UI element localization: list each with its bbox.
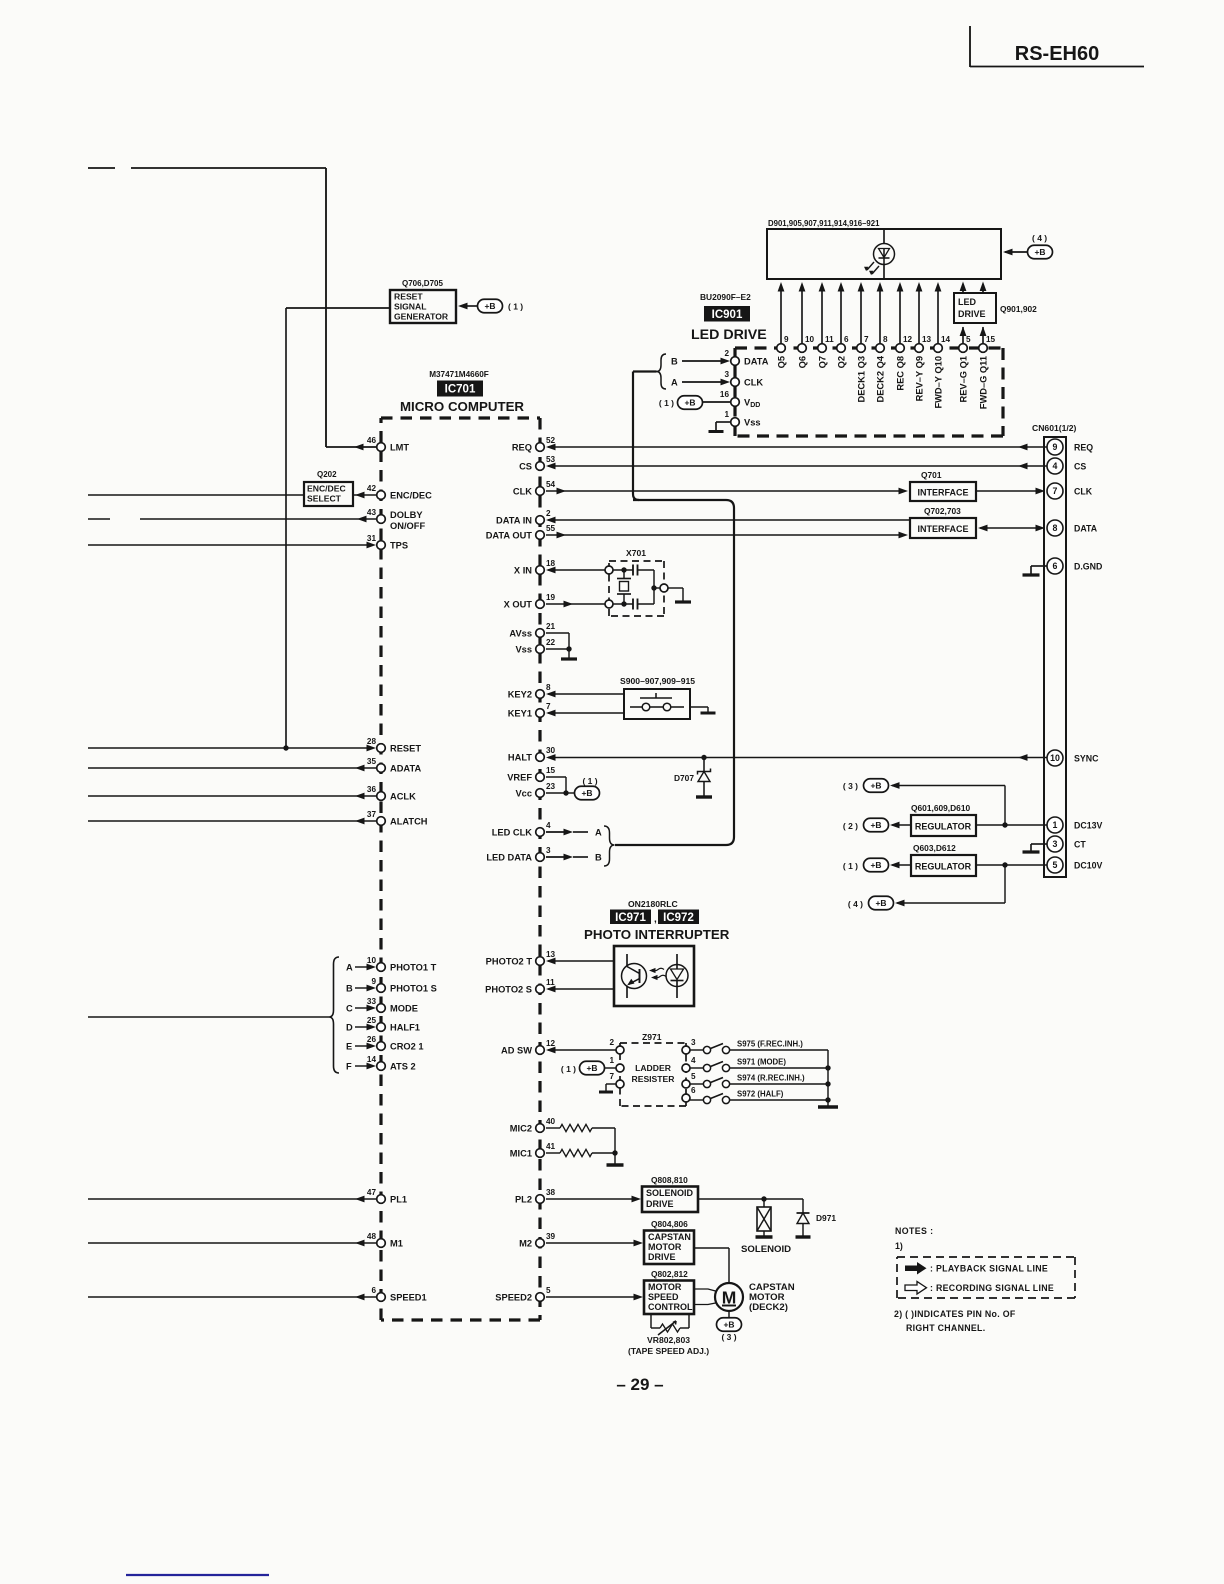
IC701 pin 43 DOLBY xyxy=(377,515,386,524)
svg-text:B: B xyxy=(595,853,602,863)
IC701 pin 41 MIC1 xyxy=(536,1149,545,1158)
IC701 pin 5 SPEED2 xyxy=(536,1293,545,1302)
wire reset generator to RESET pin xyxy=(286,307,390,309)
svg-text:CONTROL: CONTROL xyxy=(648,1302,693,1312)
IC701 pin 40 MIC2 xyxy=(536,1124,545,1133)
svg-text:7: 7 xyxy=(864,335,869,344)
wire DATA IN xyxy=(548,519,910,521)
svg-text:MIC2: MIC2 xyxy=(510,1124,532,1134)
svg-text:SYNC: SYNC xyxy=(1074,754,1099,764)
svg-text:35: 35 xyxy=(367,757,377,766)
svg-text:CLK: CLK xyxy=(744,378,763,388)
svg-text:8: 8 xyxy=(1053,523,1058,533)
svg-text:1: 1 xyxy=(724,410,729,419)
svg-text:ON2180RLC: ON2180RLC xyxy=(628,899,678,909)
svg-text:VDD: VDD xyxy=(744,398,760,410)
svg-text:DOLBY: DOLBY xyxy=(390,510,423,520)
wire MIC1 with resistor xyxy=(546,1152,560,1154)
svg-text:DRIVE: DRIVE xyxy=(958,309,986,319)
brace group A-F inputs xyxy=(329,957,339,1073)
svg-text:( 3 ): ( 3 ) xyxy=(721,1332,736,1342)
IC901 output pin 5 REV-G Q1 xyxy=(962,327,964,344)
svg-text:PHOTO1 T: PHOTO1 T xyxy=(390,963,437,973)
svg-text:16: 16 xyxy=(720,390,730,399)
IC701 pin 12 AD SW xyxy=(536,1046,545,1055)
svg-text:MODE: MODE xyxy=(390,1004,418,1014)
svg-text:SELECT: SELECT xyxy=(307,494,342,504)
IC901 output pin 14 FWD–Y Q10 xyxy=(937,291,939,344)
svg-text:+B: +B xyxy=(484,301,495,311)
ground D.GND xyxy=(1031,565,1047,567)
svg-text:CRO2 1: CRO2 1 xyxy=(390,1042,424,1052)
IC701 pin 18 X IN xyxy=(536,566,545,575)
svg-text:IC972: IC972 xyxy=(663,912,694,924)
svg-text:9: 9 xyxy=(784,335,789,344)
bus wire A/B from LED CLK / LED DATA to IC901 xyxy=(632,372,634,495)
svg-text:HALF1: HALF1 xyxy=(390,1023,420,1033)
CN601 pin 5 DC10V xyxy=(1047,857,1063,873)
svg-text:Q202: Q202 xyxy=(317,470,337,479)
svg-text:( 3 ): ( 3 ) xyxy=(843,781,858,791)
wire AD SW xyxy=(548,1049,616,1051)
IC701 pin 33 MODE xyxy=(377,1004,386,1013)
IC701 pin 47 PL1 xyxy=(377,1195,386,1204)
svg-text:Q808,810: Q808,810 xyxy=(651,1175,688,1185)
wire X IN xyxy=(548,569,605,571)
svg-text:DATA IN: DATA IN xyxy=(496,516,532,526)
wire MIC2 with resistor xyxy=(546,1127,560,1129)
switch S972 xyxy=(690,1099,703,1101)
svg-text:1: 1 xyxy=(1053,820,1058,830)
svg-text:M: M xyxy=(722,1288,737,1308)
power +B (3) to capstan motor xyxy=(728,1311,730,1318)
svg-text:9: 9 xyxy=(371,977,376,986)
wire CS xyxy=(548,465,1047,467)
svg-text:RESET: RESET xyxy=(390,744,421,754)
svg-text:HALT: HALT xyxy=(508,753,532,763)
svg-text:13: 13 xyxy=(922,335,932,344)
svg-text:PL1: PL1 xyxy=(390,1195,407,1205)
svg-text:F: F xyxy=(346,1062,352,1072)
IC701 pin 52 REQ xyxy=(536,443,545,452)
svg-text:REQ: REQ xyxy=(1074,443,1093,453)
IC701 pin 10 PHOTO1 T xyxy=(377,963,386,972)
svg-text:5: 5 xyxy=(966,335,971,344)
svg-text:MOTOR: MOTOR xyxy=(648,1282,682,1292)
svg-text:6: 6 xyxy=(844,335,849,344)
svg-text:2) ( )INDICATES PIN No. OF: 2) ( )INDICATES PIN No. OF xyxy=(894,1309,1016,1319)
svg-text:6: 6 xyxy=(371,1286,376,1295)
svg-text:Q804,806: Q804,806 xyxy=(651,1219,688,1229)
svg-text:CAPSTAN: CAPSTAN xyxy=(648,1232,691,1242)
svg-text:Vss: Vss xyxy=(744,418,761,428)
svg-text:11: 11 xyxy=(825,335,834,344)
ground CT xyxy=(1031,843,1047,845)
IC901 output pin 6 Q2 xyxy=(840,291,842,344)
IC701 pin 26 CRO2 1 xyxy=(377,1042,386,1051)
svg-text:+B: +B xyxy=(581,788,592,798)
svg-text:28: 28 xyxy=(367,737,377,746)
bottom blue mark xyxy=(126,1574,269,1576)
svg-text:REV–G Q1: REV–G Q1 xyxy=(959,356,969,403)
IC701 pin 9 PHOTO1 S xyxy=(377,984,386,993)
svg-text:M37471M4660F: M37471M4660F xyxy=(429,370,489,379)
IC901 output pin 10 Q6 xyxy=(801,291,803,344)
svg-text:12: 12 xyxy=(546,1039,556,1048)
svg-text:8: 8 xyxy=(546,683,551,692)
svg-text:Z971: Z971 xyxy=(642,1032,662,1042)
svg-text:30: 30 xyxy=(546,746,556,755)
IC901 pin 3 CLK xyxy=(731,378,740,387)
wire M2 to capstan motor drive xyxy=(546,1242,635,1244)
power +B (1) to reset generator xyxy=(478,299,503,313)
svg-text:LED: LED xyxy=(958,297,977,307)
IC701 pin 39 M2 xyxy=(536,1239,545,1248)
svg-text:D.GND: D.GND xyxy=(1074,562,1102,572)
wire X OUT xyxy=(546,603,605,605)
ground AVss Vss xyxy=(546,632,569,634)
svg-text:ATS 2: ATS 2 xyxy=(390,1062,416,1072)
svg-text:5: 5 xyxy=(1053,860,1058,870)
IC701 pin 11 PHOTO2 S xyxy=(536,985,545,994)
svg-text:NOTES :: NOTES : xyxy=(895,1226,933,1236)
svg-text:( 2 ): ( 2 ) xyxy=(843,821,858,831)
svg-text:7: 7 xyxy=(1053,486,1058,496)
svg-text:S972 (HALF): S972 (HALF) xyxy=(737,1090,784,1099)
wire ADATA xyxy=(88,767,376,769)
svg-text:(TAPE SPEED ADJ.): (TAPE SPEED ADJ.) xyxy=(628,1346,709,1356)
svg-text:6: 6 xyxy=(691,1086,696,1095)
wire crystal common xyxy=(653,570,655,604)
svg-text:48: 48 xyxy=(367,1232,377,1241)
switch common to ground xyxy=(827,1050,829,1106)
Z971 pin 4 xyxy=(682,1064,690,1072)
svg-text:55: 55 xyxy=(546,524,556,533)
svg-text:SOLENOID: SOLENOID xyxy=(646,1188,694,1198)
micro computer IC701 box xyxy=(381,416,540,419)
svg-text:SPEED1: SPEED1 xyxy=(390,1293,427,1303)
svg-text:ACLK: ACLK xyxy=(390,792,416,802)
svg-text:S974 (R.REC.INH.): S974 (R.REC.INH.) xyxy=(737,1074,805,1083)
svg-text:1: 1 xyxy=(609,1056,614,1065)
IC701 pin 35 ADATA xyxy=(377,764,386,773)
ground Z971 pin 7 xyxy=(606,1083,616,1085)
svg-text:Q6: Q6 xyxy=(798,356,808,368)
IC701 pin 19 X OUT xyxy=(536,600,545,609)
svg-text:6: 6 xyxy=(1053,561,1058,571)
IC701 pin 3 LED DATA xyxy=(536,853,545,862)
svg-text:52: 52 xyxy=(546,436,556,445)
brace for A/B bus at IC901 xyxy=(657,354,667,389)
svg-text:7: 7 xyxy=(546,702,551,711)
IC901 pin 1 Vss xyxy=(731,418,740,427)
svg-text:Vss: Vss xyxy=(515,645,532,655)
svg-text:Q802,812: Q802,812 xyxy=(651,1269,688,1279)
IC701 pin 53 CS xyxy=(536,462,545,471)
wire ENC/DEC xyxy=(88,494,304,496)
svg-text:+B: +B xyxy=(586,1063,597,1073)
CN601 pin 7 CLK xyxy=(1047,483,1063,499)
svg-text:E: E xyxy=(346,1042,352,1052)
svg-text:DRIVE: DRIVE xyxy=(646,1199,674,1209)
svg-text:Q7: Q7 xyxy=(818,356,828,368)
IC901 output pin 11 Q7 xyxy=(821,291,823,344)
CN601 pin 9 REQ xyxy=(1047,439,1063,455)
wire LED CLK to node A xyxy=(546,831,566,833)
IC701 pin 54 CLK xyxy=(536,487,545,496)
svg-text:D707: D707 xyxy=(674,773,694,783)
svg-text:22: 22 xyxy=(546,638,556,647)
svg-text:31: 31 xyxy=(367,534,377,543)
svg-text:2: 2 xyxy=(546,509,551,518)
svg-text:: RECORDING SIGNAL LINE: : RECORDING SIGNAL LINE xyxy=(930,1283,1054,1293)
svg-text:( 4 ): ( 4 ) xyxy=(1032,233,1047,243)
wire ALATCH xyxy=(88,820,376,822)
solenoid xyxy=(763,1199,765,1207)
IC701 pin 22 Vss xyxy=(536,645,545,654)
IC701 pin 13 PHOTO2 T xyxy=(536,957,545,966)
svg-text:( 1 ): ( 1 ) xyxy=(659,398,674,408)
svg-text:33: 33 xyxy=(367,997,377,1006)
Z971 pin 7 xyxy=(616,1080,624,1088)
svg-text:DATA: DATA xyxy=(744,357,769,367)
wire solenoid drive output xyxy=(698,1198,803,1200)
svg-text:TPS: TPS xyxy=(390,541,408,551)
Z971 pin 6 xyxy=(682,1094,690,1102)
svg-text:INTERFACE: INTERFACE xyxy=(917,524,968,534)
svg-text:REQ: REQ xyxy=(512,443,532,453)
svg-text:18: 18 xyxy=(546,559,556,568)
svg-text:VREF: VREF xyxy=(507,773,532,783)
svg-text:DRIVE: DRIVE xyxy=(648,1252,676,1262)
svg-text:Q603,D612: Q603,D612 xyxy=(913,843,956,853)
wire DC10V xyxy=(976,864,1047,866)
svg-text:25: 25 xyxy=(367,1016,377,1025)
svg-text:PHOTO1 S: PHOTO1 S xyxy=(390,984,437,994)
playback signal arrow xyxy=(905,1266,917,1272)
svg-text:9: 9 xyxy=(1053,442,1058,452)
IC901 pin 2 DATA xyxy=(731,357,740,366)
diode D971 xyxy=(802,1199,804,1213)
IC701 pin 25 HALF1 xyxy=(377,1023,386,1032)
svg-text:– 29 –: – 29 – xyxy=(616,1375,663,1394)
svg-text:DECK2 Q4: DECK2 Q4 xyxy=(876,355,886,402)
svg-text:ALATCH: ALATCH xyxy=(390,817,428,827)
photo LED xyxy=(666,965,688,987)
svg-text:PHOTO2 S: PHOTO2 S xyxy=(485,985,532,995)
wire KEY1 xyxy=(548,712,624,714)
svg-text:42: 42 xyxy=(367,484,377,493)
wire interface to CN601 DATA xyxy=(980,527,1040,529)
power +B (4) from DC10V xyxy=(1004,865,1006,903)
IC701 pin 55 DATA OUT xyxy=(536,531,545,540)
svg-text:CLK: CLK xyxy=(1074,487,1093,497)
svg-text:Q901,902: Q901,902 xyxy=(1000,304,1037,314)
wires LED DRIVE to LED array xyxy=(962,284,964,293)
phototransistor xyxy=(622,964,647,989)
wire interface to CN601 CLK xyxy=(976,490,1040,492)
svg-text:CN601(1/2): CN601(1/2) xyxy=(1032,423,1077,433)
svg-text:REV–Y Q9: REV–Y Q9 xyxy=(915,356,925,401)
svg-text:13: 13 xyxy=(546,950,556,959)
IC701 pin 2 DATA IN xyxy=(536,516,545,525)
svg-text:Vcc: Vcc xyxy=(515,789,532,799)
power +B (1) to Vcc/VREF xyxy=(546,776,566,778)
svg-text:Q601,609,D610: Q601,609,D610 xyxy=(911,803,970,813)
svg-text:A: A xyxy=(595,828,602,838)
svg-text:CS: CS xyxy=(519,462,532,472)
IC701 pin 8 KEY2 xyxy=(536,690,545,699)
svg-text:DC10V: DC10V xyxy=(1074,861,1102,871)
svg-text:S975 (F.REC.INH.): S975 (F.REC.INH.) xyxy=(737,1040,803,1049)
svg-text:BU2090F–E2: BU2090F–E2 xyxy=(700,292,751,302)
CN601 pin 3 CT xyxy=(1047,836,1063,852)
svg-text:23: 23 xyxy=(546,782,556,791)
svg-text:ENC/DEC: ENC/DEC xyxy=(390,491,432,501)
svg-text:LMT: LMT xyxy=(390,443,409,453)
wire PHOTO2 T xyxy=(548,960,614,962)
svg-text:3: 3 xyxy=(724,370,729,379)
svg-text:X701: X701 xyxy=(626,548,646,558)
svg-text:12: 12 xyxy=(903,335,913,344)
svg-text:47: 47 xyxy=(367,1188,377,1197)
svg-text:A: A xyxy=(671,378,678,388)
svg-text:+B: +B xyxy=(875,898,886,908)
svg-text:10: 10 xyxy=(1050,753,1060,763)
svg-text:53: 53 xyxy=(546,455,556,464)
svg-text:15: 15 xyxy=(986,335,996,344)
svg-text:CLK: CLK xyxy=(513,487,532,497)
svg-text:39: 39 xyxy=(546,1232,556,1241)
svg-text:+B: +B xyxy=(870,781,881,791)
switch S971 xyxy=(690,1067,703,1069)
svg-text:IC971: IC971 xyxy=(615,912,646,924)
svg-text:AD SW: AD SW xyxy=(501,1046,532,1056)
svg-text:11: 11 xyxy=(546,978,555,987)
IC701 pin 37 ALATCH xyxy=(377,817,386,826)
light arrows xyxy=(652,968,664,971)
wire DC13V xyxy=(976,824,1047,826)
svg-text:( 4 ): ( 4 ) xyxy=(848,899,863,909)
wire SPEED2 to motor speed control xyxy=(546,1296,635,1298)
svg-text:41: 41 xyxy=(546,1142,556,1151)
page title RS-EH60 xyxy=(969,26,971,67)
svg-text:X IN: X IN xyxy=(514,566,532,576)
svg-text:: PLAYBACK SIGNAL LINE: : PLAYBACK SIGNAL LINE xyxy=(930,1264,1048,1274)
svg-text:INTERFACE: INTERFACE xyxy=(917,488,968,498)
svg-text:S971 (MODE): S971 (MODE) xyxy=(737,1058,786,1067)
wire SPEED1 xyxy=(88,1296,376,1298)
svg-text:LED DRIVE: LED DRIVE xyxy=(691,327,767,343)
svg-text:IC701: IC701 xyxy=(445,384,476,396)
svg-text:Q2: Q2 xyxy=(837,356,847,368)
CN601 pin 1 DC13V xyxy=(1047,817,1063,833)
CN601 pin 4 CS xyxy=(1047,458,1063,474)
svg-text:REGULATOR: REGULATOR xyxy=(915,862,972,872)
svg-text:,: , xyxy=(654,914,657,925)
svg-text:A: A xyxy=(346,963,353,973)
IC701 pin 4 LED CLK xyxy=(536,828,545,837)
ground MIC common xyxy=(614,1128,616,1164)
wire capstan drive to motor xyxy=(694,1247,729,1249)
IC701 pin 23 Vcc xyxy=(536,789,545,798)
svg-text:REGULATOR: REGULATOR xyxy=(915,822,972,832)
wire M1 xyxy=(88,1242,376,1244)
wire RESET net xyxy=(88,747,369,749)
svg-text:SPEED2: SPEED2 xyxy=(495,1293,532,1303)
svg-text:37: 37 xyxy=(367,810,377,819)
svg-text:ADATA: ADATA xyxy=(390,764,421,774)
svg-text:Q5: Q5 xyxy=(777,356,787,368)
svg-text:LED CLK: LED CLK xyxy=(492,828,533,838)
svg-text:D901,905,907,911,914,916–921: D901,905,907,911,914,916–921 xyxy=(768,219,880,228)
svg-text:ENC/DEC: ENC/DEC xyxy=(307,484,346,494)
svg-text:10: 10 xyxy=(805,335,815,344)
svg-text:4: 4 xyxy=(1053,461,1058,471)
wire ACLK xyxy=(88,795,376,797)
svg-text:X OUT: X OUT xyxy=(504,600,533,610)
svg-text:SPEED: SPEED xyxy=(648,1292,679,1302)
svg-text:D: D xyxy=(346,1023,353,1033)
svg-text:PHOTO2 T: PHOTO2 T xyxy=(486,957,533,967)
svg-text:+B: +B xyxy=(1034,247,1045,257)
variable resistor VR802,803 xyxy=(650,1314,652,1328)
CN601 pin 6 D.GND xyxy=(1047,558,1063,574)
photo interrupter U971 box xyxy=(614,946,694,1006)
svg-text:3: 3 xyxy=(691,1038,696,1047)
svg-text:SOLENOID: SOLENOID xyxy=(741,1244,791,1255)
IC701 pin 15 VREF xyxy=(536,773,545,782)
svg-text:3: 3 xyxy=(546,846,551,855)
capacitor bottom xyxy=(632,599,634,610)
IC701 pin 7 KEY1 xyxy=(536,709,545,718)
svg-text:SIGNAL: SIGNAL xyxy=(394,302,426,312)
svg-text:38: 38 xyxy=(546,1188,556,1197)
svg-text:PL2: PL2 xyxy=(515,1195,532,1205)
svg-text:2: 2 xyxy=(724,349,729,358)
IC701 pin 30 HALT xyxy=(536,753,545,762)
svg-text:14: 14 xyxy=(367,1055,377,1064)
LED drive transistors Q901,902 xyxy=(954,293,996,323)
svg-text:Q702,703: Q702,703 xyxy=(924,506,961,516)
svg-text:DATA: DATA xyxy=(1074,524,1098,534)
svg-text:+B: +B xyxy=(870,860,881,870)
svg-text:8: 8 xyxy=(883,335,888,344)
ground IC901 Vss xyxy=(716,421,730,423)
svg-text:FWD–G Q11: FWD–G Q11 xyxy=(979,356,989,409)
svg-text:DATA OUT: DATA OUT xyxy=(486,531,533,541)
svg-text:IC901: IC901 xyxy=(712,309,743,321)
svg-text:3: 3 xyxy=(1053,839,1058,849)
brace at LED CLK/DATA side xyxy=(604,826,615,866)
ground X701 xyxy=(668,587,683,589)
svg-text:26: 26 xyxy=(367,1035,377,1044)
svg-text:CT: CT xyxy=(1074,840,1086,850)
IC901 output pin 13 REV–Y Q9 xyxy=(918,291,920,344)
wire HALT to SYNC xyxy=(548,757,1047,759)
svg-text:( 1 ): ( 1 ) xyxy=(843,861,858,871)
wire PL1 xyxy=(88,1198,376,1200)
svg-text:MICRO COMPUTER: MICRO COMPUTER xyxy=(400,399,524,414)
svg-text:15: 15 xyxy=(546,766,556,775)
IC701 pin 46 LMT xyxy=(377,443,386,452)
svg-text:36: 36 xyxy=(367,785,377,794)
svg-text:5: 5 xyxy=(546,1286,551,1295)
svg-text:PHOTO INTERRUPTER: PHOTO INTERRUPTER xyxy=(584,927,730,942)
switch S974 xyxy=(690,1083,703,1085)
IC901 output pin 15 FWD-G Q11 xyxy=(982,327,984,344)
svg-text:RS-EH60: RS-EH60 xyxy=(1015,43,1099,65)
